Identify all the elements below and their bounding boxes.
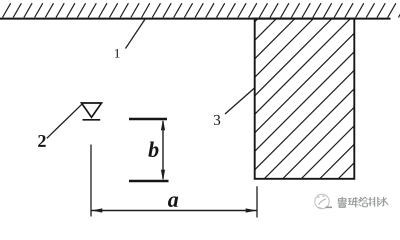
- extension line left (below water symbol): [90, 145, 92, 217]
- label 2: [38, 135, 45, 147]
- char pai: [368, 197, 379, 207]
- dimension b: bottom tick: [129, 180, 169, 182]
- dimension b: line with arrows: [162, 121, 164, 179]
- dimension b: bottom arrowhead: [161, 170, 165, 181]
- extension line right (below wall): [256, 186, 258, 217]
- watermark logo (gray circle): [315, 194, 332, 208]
- dimension a: right arrowhead: [246, 208, 257, 212]
- char lu: [338, 197, 347, 208]
- leader for label 3: [225, 88, 254, 114]
- char ban: [348, 197, 358, 207]
- dimension b: top tick: [129, 118, 167, 120]
- water level symbol (inverted triangle): [82, 103, 102, 117]
- ceiling hatch: [3, 3, 400, 17]
- dimension a: left arrowhead: [91, 208, 102, 212]
- char shui: [379, 197, 388, 206]
- leader for label 2: [47, 104, 82, 138]
- label a: [168, 196, 178, 207]
- ceiling line (slab soffit): [0, 18, 391, 20]
- water level underline: [83, 119, 101, 121]
- wall/beam rectangle 3: [255, 19, 355, 179]
- wall hatch (45 deg): [57, 0, 400, 220]
- watermark text: 鲁班给排水 drawn as strokes: [338, 197, 389, 208]
- dimension b: top arrowhead: [161, 119, 165, 130]
- label 3: [214, 115, 220, 125]
- char gei: [359, 197, 368, 207]
- dimension a: line with arrows: [92, 210, 257, 212]
- leader for label 1: [126, 20, 145, 49]
- label b: [148, 141, 158, 157]
- label 1: [115, 49, 120, 58]
